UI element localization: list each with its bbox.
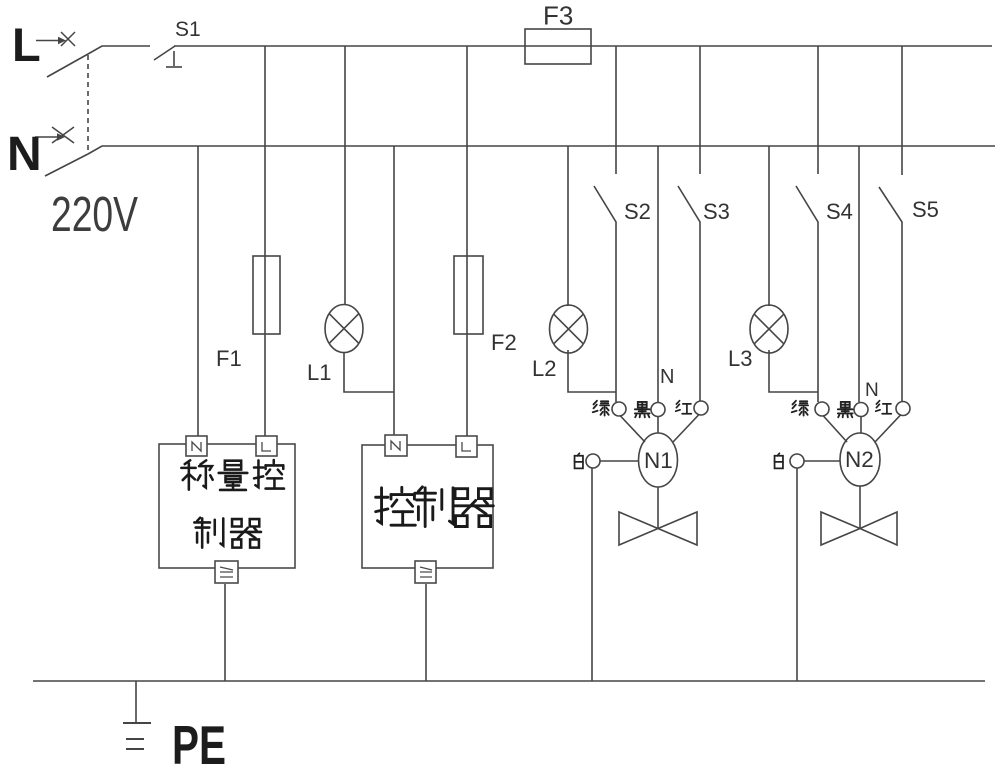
svg-text:N: N (7, 128, 42, 181)
svg-text:S2: S2 (624, 199, 651, 224)
svg-text:L2: L2 (532, 356, 556, 381)
svg-text:F1: F1 (216, 346, 242, 371)
svg-text:S4: S4 (826, 199, 853, 224)
svg-text:N1: N1 (644, 448, 673, 473)
svg-text:N2: N2 (845, 447, 874, 472)
svg-text:S1: S1 (175, 18, 201, 41)
svg-text:220V: 220V (51, 188, 138, 242)
svg-text:L1: L1 (307, 360, 331, 385)
svg-text:N: N (660, 366, 674, 388)
svg-text:F2: F2 (491, 330, 517, 355)
svg-text:PE: PE (172, 714, 226, 772)
svg-text:N: N (865, 380, 879, 401)
svg-text:S3: S3 (703, 199, 730, 224)
svg-text:L: L (12, 18, 41, 71)
svg-text:F3: F3 (543, 1, 573, 31)
svg-text:S5: S5 (912, 197, 939, 222)
svg-text:L3: L3 (728, 346, 752, 371)
